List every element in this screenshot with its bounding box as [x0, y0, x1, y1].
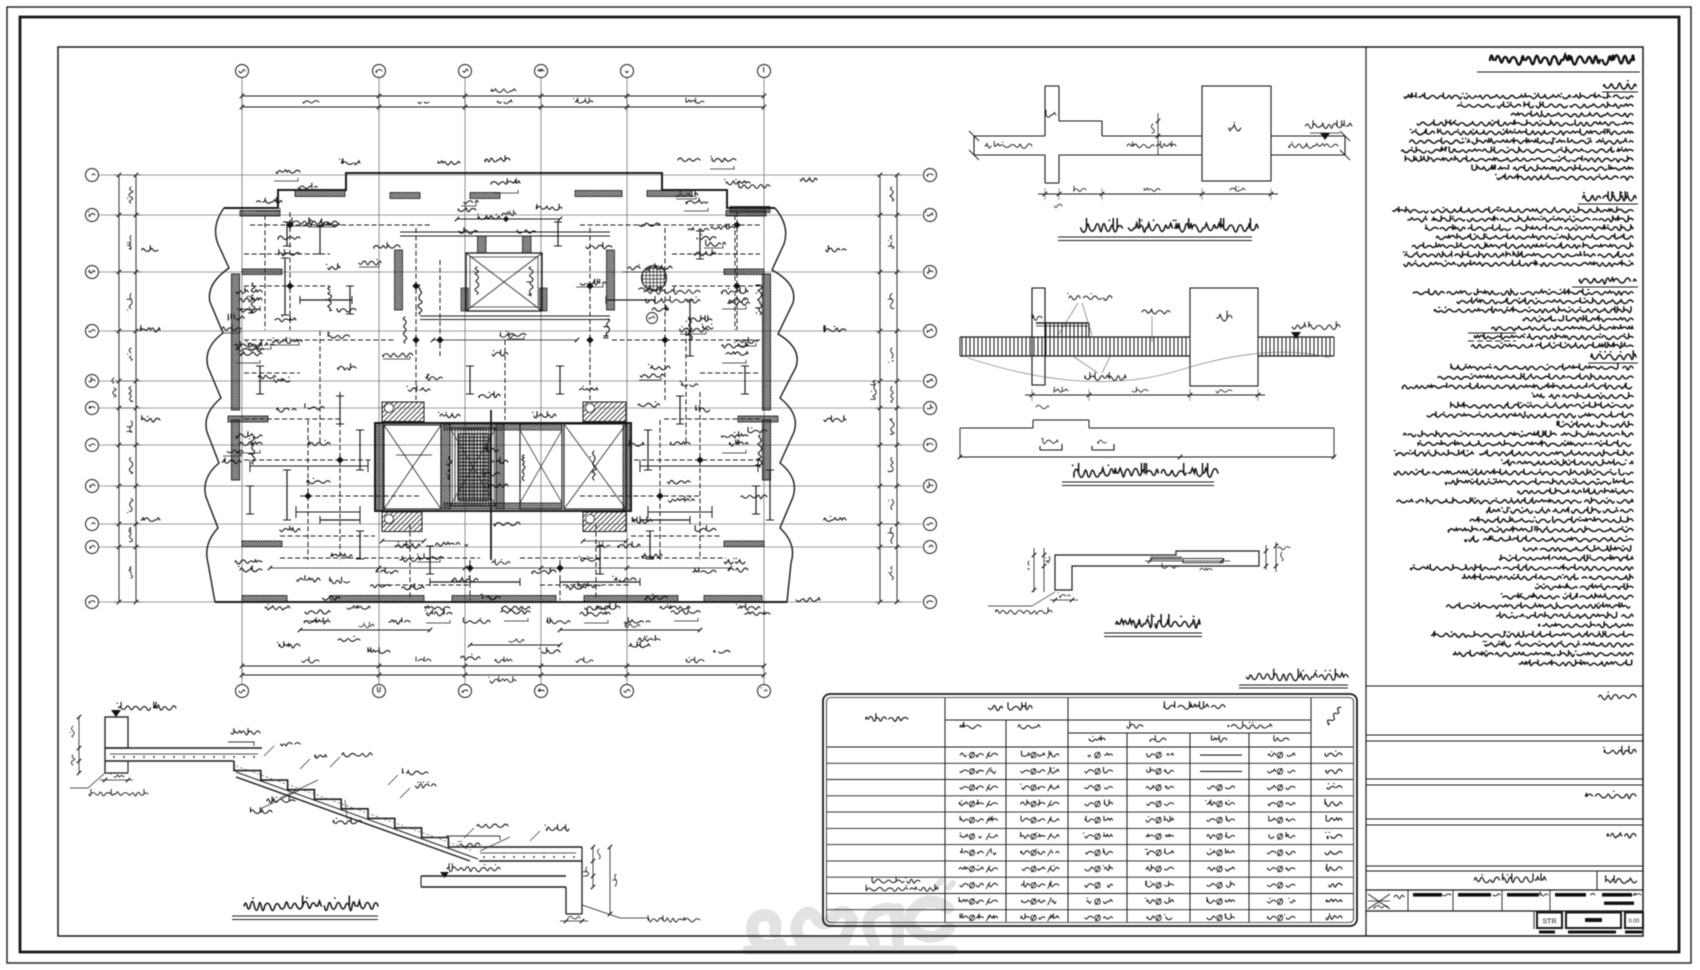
svg-text:0.00: 0.00 [1629, 919, 1640, 925]
section 2-2 reinf slab band hatched [960, 337, 1334, 356]
section 3-3 leader label [1032, 592, 1055, 606]
notes paragraph 1 [1402, 93, 1633, 181]
section 2-2 reinf level marker [1292, 321, 1340, 329]
notes heading 1 [1604, 81, 1636, 89]
upper shaft inner rotated labels [474, 267, 479, 294]
section 2-2 reinf drop block [1190, 288, 1258, 386]
stair right dims [560, 845, 617, 923]
plan vertical grid lines [242, 78, 764, 684]
slab outline top edge [224, 173, 775, 208]
notes heading 3 [1579, 278, 1636, 284]
stair flight dense zone [450, 428, 496, 506]
upper shaft top dim [457, 218, 560, 220]
plan left dimension chain [112, 173, 141, 604]
plan right dimension chain [870, 173, 902, 604]
stirrup hat detail [958, 420, 1336, 459]
table row lines [827, 763, 1353, 909]
upper core door jamb right [523, 236, 532, 253]
core pad dim lines [382, 540, 424, 542]
plan extra annotation clutter [222, 182, 770, 584]
left wall horizontal hatched strips [240, 211, 280, 217]
slab outline bottom edge [215, 601, 787, 603]
table header texts [866, 701, 1343, 742]
stair top level marker [117, 702, 176, 711]
notes paragraph 4 [1394, 364, 1633, 667]
stair top column [105, 717, 128, 748]
title block small cells [1408, 890, 1641, 911]
stair top landing slab [105, 748, 262, 773]
stair lower floor slab [421, 861, 582, 914]
section 3-3 lap bars [1150, 557, 1182, 560]
plan row grid bubbles right [924, 169, 937, 609]
notes heading 4 [1591, 350, 1636, 360]
contractor box [1607, 833, 1636, 838]
watermark khamsat [747, 881, 953, 950]
slab outline right broken edge [772, 208, 797, 602]
slab outline left broken edge [205, 208, 229, 602]
table header lines [945, 719, 1311, 721]
section 2-2 slab labels [985, 141, 1032, 148]
section 2-2 drop beam block [1202, 86, 1271, 181]
beam stubs solid [281, 222, 774, 586]
table data cells [866, 751, 1342, 922]
plan bracket marks [236, 166, 746, 623]
core inter-wall hatch left [441, 424, 450, 509]
upper core left hatched wall [395, 250, 403, 310]
stair foundation label [88, 773, 105, 788]
stair steps [234, 761, 475, 847]
stair bottom landing [475, 847, 582, 861]
right wall horizontal hatched strips [726, 211, 766, 217]
plan rotated annotation labels [248, 283, 762, 482]
title block bottom row [1366, 911, 1643, 934]
core corner diagonal-hatch pad bottom-left [382, 512, 422, 532]
core corner diagonal-hatch pad top-left [382, 402, 424, 422]
section 2-2 reinf dim line [1025, 387, 1265, 409]
label top reinforcement [1068, 294, 1112, 301]
upper core right hatched wall [607, 250, 615, 310]
section 3-3 outline [1055, 551, 1259, 590]
upper core bottom wall [420, 315, 610, 317]
section 2-2 reinf title [1072, 463, 1218, 477]
core inter-wall hatch right [496, 424, 504, 509]
section 2-2 column [1045, 86, 1059, 183]
stair slab underside [236, 777, 470, 861]
round column labels [644, 287, 700, 295]
central core left hatched wall [375, 423, 383, 511]
label stirrups [1142, 309, 1170, 314]
revision stamp cell [1368, 894, 1404, 909]
core corner diagonal-hatch pad bottom-right [583, 512, 626, 532]
section 3-3 title [1116, 614, 1200, 628]
section 2-2 concrete slab outline [974, 121, 1345, 155]
section 2-2 floor level marker [1304, 120, 1352, 140]
plan column grid bubbles bottom [236, 685, 771, 698]
stair rebar labels [228, 728, 569, 851]
upper core top beam wall [400, 231, 610, 233]
elevator X-box right [564, 424, 626, 509]
dashed beam lines vertical [290, 212, 737, 600]
stair lower level marker [447, 863, 500, 871]
central core outer walls [375, 423, 631, 511]
upper elevator shaft X-box [466, 253, 542, 311]
long bottom leader curve [968, 352, 1330, 381]
section 2-2 reinf column [1032, 288, 1045, 385]
upper core door jamb left [478, 236, 487, 253]
plan row grid bubbles left [86, 169, 99, 609]
structural designer box [1585, 791, 1636, 798]
bottom wall hatched strips [242, 596, 762, 603]
section 2-2 title [1081, 218, 1258, 232]
plan extra stub bars [246, 226, 760, 574]
svg-text:STR: STR [1543, 919, 1557, 926]
interior dim lines [250, 100, 760, 647]
top wall hatched strips [295, 191, 770, 213]
round column hatched symbol [642, 266, 667, 291]
section 2-2 end ticks [969, 131, 1350, 160]
label bottom reinforcement [1085, 372, 1126, 380]
beam schedule table title [1247, 669, 1349, 681]
section 3-3 left dims [1028, 548, 1050, 592]
notes heading 2 [1583, 191, 1636, 201]
core corner diagonal-hatch pad top-right [583, 402, 626, 422]
section 2-2 interior vertical dim [1157, 113, 1159, 155]
stair footing leader label [582, 905, 620, 918]
upper shaft corner hatches [461, 288, 469, 311]
plan annotation labels [140, 155, 846, 660]
section 3-3 bottom dim [1050, 599, 1078, 601]
stair shaft X-box left [384, 425, 441, 509]
elevator X-box middle [520, 424, 562, 509]
round column small bubble [647, 313, 658, 324]
plan top dimension chain [240, 89, 766, 111]
upper core dim line [433, 339, 577, 341]
beam schedule table outer border [823, 694, 1357, 926]
owner box [1604, 746, 1637, 755]
left wall column hatched [232, 274, 240, 410]
beam node diamonds [286, 221, 740, 571]
section 2-2 reinf step hatch [1036, 323, 1089, 337]
core bottom long dim line [270, 567, 730, 569]
section 3-3 right dims [1264, 542, 1290, 572]
notes panel left border [1365, 47, 1367, 936]
plan column grid bubbles top [236, 65, 771, 78]
plan bottom dimension chain [240, 657, 766, 683]
notes title [1490, 55, 1634, 65]
central core right hatched wall [623, 423, 631, 511]
sheet name row [1366, 870, 1643, 872]
plan extra dashed segments [244, 215, 760, 600]
right wall column hatched [763, 274, 771, 410]
stair left dims [70, 715, 133, 782]
plan horizontal grid lines [99, 175, 922, 602]
section 2-2 dimension line [1038, 186, 1278, 208]
table column lines [945, 698, 1311, 922]
plan extra bottom label rows [265, 603, 760, 624]
dashed beam lines horizontal [244, 225, 760, 558]
project box [1366, 685, 1643, 687]
notes paragraph 3 [1413, 289, 1633, 349]
stair title [241, 896, 378, 911]
notes paragraph 2 [1393, 207, 1633, 267]
